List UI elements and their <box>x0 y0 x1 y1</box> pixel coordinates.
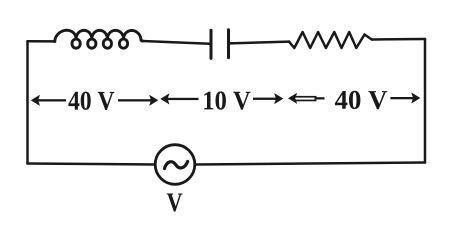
label V (source) <box>167 194 183 212</box>
arrow seg3 single shaft <box>315 97 325 99</box>
wire bottom right <box>195 163 425 165</box>
wire inductor to capacitor <box>143 41 210 44</box>
arrow seg1 left head <box>31 95 40 106</box>
capacitor C right plate <box>227 30 230 58</box>
arrow seg3 double shaft top line <box>296 96 317 98</box>
label 40 V (right segment) <box>335 91 387 109</box>
capacitor C left plate <box>210 30 213 58</box>
arrow seg1 left shaft <box>37 99 67 101</box>
wire right vertical <box>424 39 427 163</box>
arrow seg2 right shaft <box>253 98 276 100</box>
arrow seg3 left head <box>288 93 297 104</box>
AC source circle <box>155 145 195 185</box>
AC source sine symbol <box>165 162 188 169</box>
wire bottom left <box>28 164 155 165</box>
label 10 V (middle segment) <box>204 91 250 109</box>
arrow seg2 left shaft <box>166 98 199 100</box>
arrow seg1 right shaft <box>118 99 152 101</box>
arrow seg2 right head <box>274 93 283 104</box>
arrow seg3 right head <box>411 92 420 103</box>
wire resistor to top-right corner <box>372 38 425 41</box>
arrow seg1 right head <box>149 95 158 106</box>
arrow seg2 left head <box>160 93 169 104</box>
arrow seg3 right shaft <box>390 97 413 99</box>
resistor R <box>289 32 372 48</box>
label 40 V (left segment) <box>68 92 114 110</box>
wire capacitor to resistor <box>230 42 289 44</box>
wire top-left <box>28 40 56 43</box>
arrow seg3 double shaft bottom line <box>296 100 317 102</box>
inductor L <box>55 30 143 48</box>
wire left vertical <box>26 41 29 163</box>
